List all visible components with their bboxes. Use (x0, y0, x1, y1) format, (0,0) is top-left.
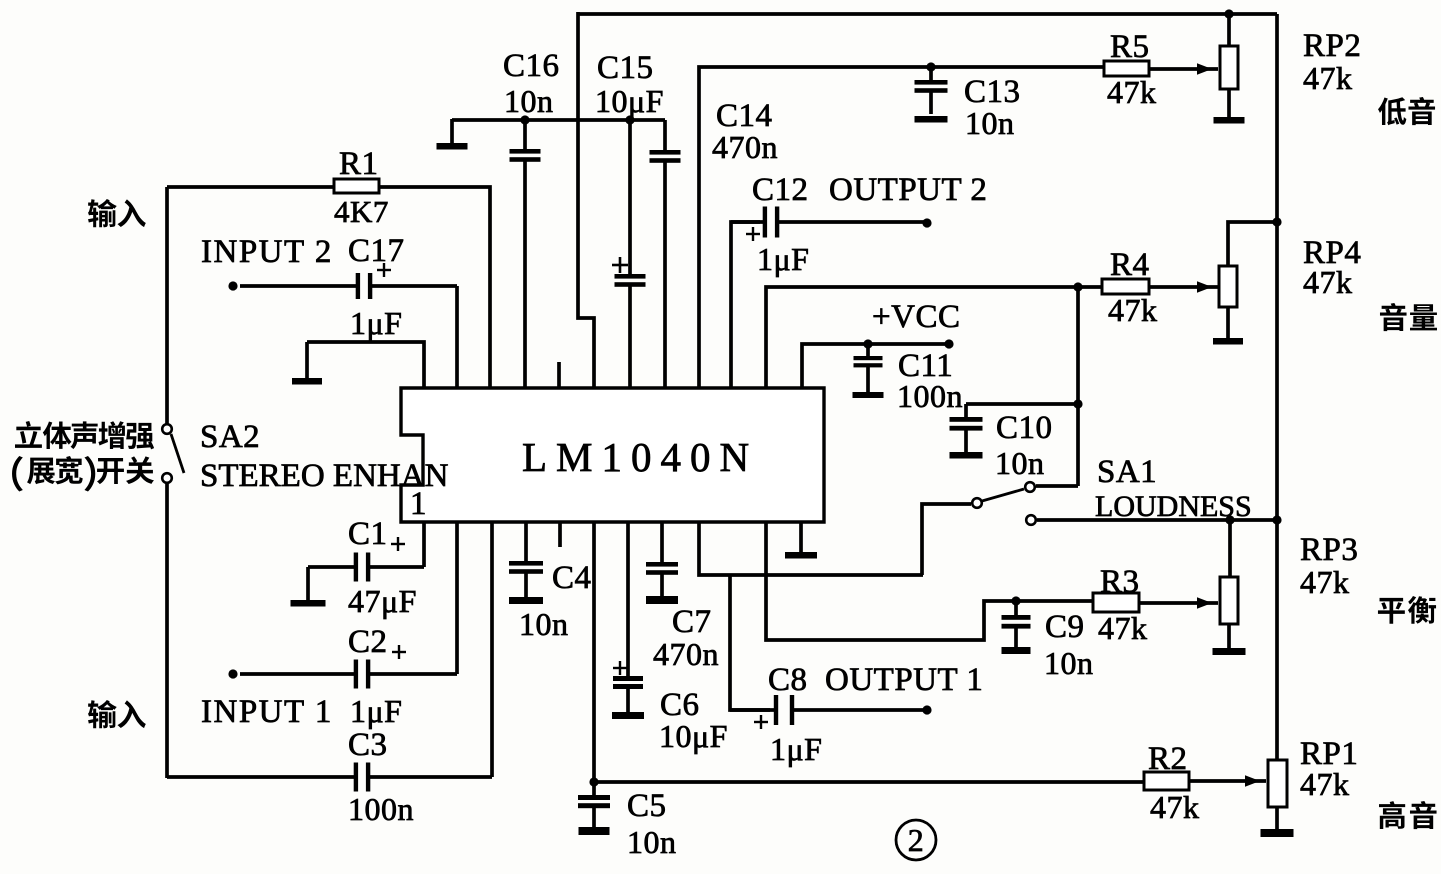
capacitor C7 (646, 522, 678, 596)
svg-text:1μF: 1μF (350, 693, 402, 729)
wire input2 to R1 (167, 185, 334, 189)
svg-text:SA1: SA1 (1097, 454, 1157, 490)
value 10n C4 (519, 606, 569, 642)
capacitor C10 (950, 404, 983, 452)
wire SA1 upper (1036, 484, 1078, 488)
svg-text:C15: C15 (597, 50, 654, 86)
svg-text:1μF: 1μF (350, 305, 402, 341)
label C13 (964, 74, 1021, 110)
resistor R3 (1093, 593, 1139, 612)
ground (437, 119, 468, 150)
wire C3 up to IC (490, 522, 494, 777)
label RP3 (1300, 532, 1358, 568)
svg-text:C12: C12 (752, 172, 809, 208)
value 47k R4 (1108, 292, 1158, 328)
label C2 (348, 624, 388, 660)
node 音量 volume (1380, 303, 1437, 331)
wire junction drop (1076, 287, 1080, 486)
pin stub top (557, 362, 561, 388)
ground (950, 452, 983, 459)
switch SA2 contact top (162, 424, 172, 434)
junction right border loudness (1272, 515, 1281, 524)
capacitor C1 (308, 553, 424, 582)
label STEREO ENHAN (200, 458, 449, 494)
resistor R1 (334, 179, 379, 193)
label C9 (1045, 609, 1085, 645)
svg-text:10μF: 10μF (659, 718, 728, 754)
capacitor C12 (731, 207, 927, 238)
svg-text:C9: C9 (1045, 609, 1085, 645)
wire R4 arrow to RP4 (1149, 281, 1218, 293)
junction top border to RP2 (1224, 9, 1233, 18)
label SA2 (200, 419, 260, 455)
label C15 (597, 50, 654, 86)
label R5 (1110, 29, 1150, 65)
junction RP3 tap (1225, 515, 1234, 524)
value 1uF C12 (757, 241, 809, 277)
svg-text:R2: R2 (1148, 741, 1188, 777)
node input 2 label 输入 (88, 199, 146, 227)
wire bottom bus (594, 780, 1144, 784)
wire C17 down to IC (455, 286, 459, 388)
label SA2 switch 开关 (12, 456, 154, 492)
value 1uF C17 (350, 305, 402, 341)
label LM1040N (522, 434, 758, 480)
capacitor C11 (854, 346, 883, 392)
ground (612, 712, 644, 719)
capacitor C17 (240, 273, 457, 299)
label SA1 (1097, 454, 1157, 490)
svg-text:4K7: 4K7 (334, 194, 389, 229)
label C8 (768, 662, 808, 698)
value 10n C16 (504, 83, 554, 119)
label C10 (996, 410, 1053, 446)
svg-text:R1: R1 (339, 146, 379, 182)
capacitor C15 (615, 122, 646, 388)
wire ground bus top (452, 118, 665, 122)
wire R2 arrow to RP1 (1189, 775, 1266, 787)
label INPUT 1 (201, 694, 333, 730)
svg-text:47k: 47k (1303, 60, 1353, 96)
ground (292, 342, 322, 385)
label C11 (898, 348, 953, 384)
switch SA2 contact bottom (162, 473, 172, 483)
value 10n C10 (995, 445, 1045, 481)
wire left rail lower (165, 483, 169, 778)
svg-text:OUTPUT 2: OUTPUT 2 (829, 172, 987, 208)
label RP2 (1303, 28, 1361, 64)
capacitor C13 (915, 69, 948, 114)
capacitor C2 (240, 660, 457, 689)
svg-text:1μF: 1μF (770, 731, 822, 767)
value 100n C3 (348, 791, 414, 827)
wire R4 feed (766, 287, 1102, 388)
svg-text:47k: 47k (1108, 292, 1158, 328)
pin 1 label (410, 486, 427, 522)
value 10uF C15 (595, 83, 664, 119)
node input 1 label 输入 (88, 700, 146, 728)
junction C10 (1073, 399, 1082, 408)
svg-text:R3: R3 (1100, 564, 1140, 600)
wire VCC (802, 344, 949, 388)
capacitor C3 (167, 763, 492, 792)
node 低音 bass (1378, 97, 1435, 125)
svg-text:10n: 10n (504, 83, 554, 119)
label OUTPUT 2 (829, 172, 987, 208)
value 10n C13 (965, 105, 1015, 141)
junction right border RP4 tap (1272, 217, 1281, 226)
label R2 (1148, 741, 1188, 777)
polarity + C2 (392, 645, 406, 659)
value 47k RP3 (1300, 564, 1350, 600)
svg-text:+VCC: +VCC (872, 299, 960, 335)
switch SA1 lever (982, 489, 1024, 501)
label LOUDNESS (1095, 490, 1252, 523)
label RP1 (1300, 736, 1358, 772)
svg-text:RP3: RP3 (1300, 532, 1358, 568)
svg-text:C7: C7 (672, 604, 712, 640)
terminal output 2 (922, 218, 931, 227)
value 1uF C2 (350, 693, 402, 729)
wire R3 arrow to RP3 (1139, 597, 1218, 609)
potentiometer RP3 (1220, 520, 1238, 648)
label C4 (552, 560, 592, 596)
label C12 (752, 172, 809, 208)
svg-text:C16: C16 (503, 48, 560, 84)
label OUTPUT 1 (825, 662, 983, 698)
pin stub bottom (558, 522, 562, 547)
ground (509, 597, 543, 604)
svg-text:47k: 47k (1098, 610, 1148, 646)
svg-text:10μF: 10μF (595, 83, 664, 119)
terminal +VCC (944, 339, 953, 348)
svg-text:STEREO ENHAN: STEREO ENHAN (200, 458, 449, 494)
svg-text:C3: C3 (348, 727, 388, 763)
wire gnd stub to IC pin (307, 342, 424, 388)
svg-text:47k: 47k (1300, 564, 1350, 600)
switch SA1 contact pole (972, 498, 982, 508)
polarity + C1 (391, 537, 405, 551)
svg-text:C2: C2 (348, 624, 388, 660)
ground (646, 596, 678, 604)
terminal input 2 (228, 281, 237, 290)
ground (1261, 829, 1294, 837)
svg-text:INPUT 2: INPUT 2 (201, 234, 333, 270)
svg-text:1μF: 1μF (757, 241, 809, 277)
svg-text:LM1040N: LM1040N (522, 434, 758, 480)
value 47k RP1 (1300, 766, 1350, 802)
wire left drop from top border (578, 12, 594, 388)
svg-text:10n: 10n (995, 445, 1045, 481)
svg-text:470n: 470n (653, 636, 719, 672)
capacitor C14 (650, 120, 681, 388)
label +VCC (872, 299, 960, 335)
ground (1214, 117, 1245, 124)
switch SA1 contact right (1025, 482, 1035, 492)
label R4 (1110, 247, 1150, 283)
value 47k R5 (1107, 74, 1157, 110)
wire IC pin to SA1 (699, 522, 923, 575)
label INPUT 2 (201, 234, 333, 270)
polarity + C17 (377, 263, 391, 277)
label C3 (348, 727, 388, 763)
potentiometer RP1 (1268, 760, 1287, 829)
wire R5 arrow to RP2 (1149, 63, 1218, 75)
junction C11 (863, 339, 872, 348)
label R1 (339, 146, 379, 182)
capacitor C9 (1002, 603, 1031, 647)
junction C13 (926, 62, 935, 71)
svg-text:10n: 10n (627, 824, 677, 860)
capacitor C8 (730, 695, 927, 725)
svg-text:10n: 10n (965, 105, 1015, 141)
svg-text:C8: C8 (768, 662, 808, 698)
svg-text:47k: 47k (1107, 74, 1157, 110)
label C5 (627, 788, 667, 824)
svg-text:OUTPUT 1: OUTPUT 1 (825, 662, 983, 698)
resistor R5 (1104, 61, 1149, 76)
resistor R2 (1144, 772, 1189, 790)
label C17 (348, 233, 405, 269)
switch SA2 lever (171, 434, 184, 473)
value 10n C9 (1044, 645, 1094, 681)
wire top border (578, 12, 1277, 16)
label C16 (503, 48, 560, 84)
ground (1213, 648, 1246, 655)
ground (915, 116, 948, 123)
svg-text:10n: 10n (519, 606, 569, 642)
wire SA1 pole (922, 504, 971, 575)
value 470n C14 (712, 129, 778, 165)
node 高音 treble (1379, 801, 1437, 829)
value 47k R2 (1150, 789, 1200, 825)
value 47k RP2 (1303, 60, 1353, 96)
ground (853, 392, 884, 398)
capacitor C6 (613, 522, 643, 712)
terminal input 1 (228, 669, 237, 678)
value 47k R3 (1098, 610, 1148, 646)
potentiometer RP2 (1220, 14, 1238, 117)
value 1uF C8 (770, 731, 822, 767)
svg-text:INPUT 1: INPUT 1 (201, 694, 333, 730)
resistor R4 (1102, 279, 1149, 294)
wire IC to bottom bus (592, 522, 596, 782)
polarity + C15 (612, 257, 628, 273)
ground (1002, 647, 1031, 654)
wire C10 node (966, 402, 1078, 406)
svg-text:C10: C10 (996, 410, 1053, 446)
ground (1213, 338, 1243, 345)
value 47k RP4 (1303, 264, 1353, 300)
wire C1 up to IC (422, 522, 426, 567)
label R3 (1100, 564, 1140, 600)
wire left rail upper (165, 187, 169, 424)
junction C5 (589, 777, 598, 786)
label C1 (348, 516, 388, 552)
potentiometer RP4 (1219, 266, 1237, 338)
label RP4 (1303, 235, 1361, 271)
svg-text:C5: C5 (627, 788, 667, 824)
capacitor C5 (578, 784, 610, 827)
svg-text:RP2: RP2 (1303, 28, 1361, 64)
junction C16 (520, 115, 529, 124)
ground (579, 827, 610, 835)
wire IC to C12 (731, 222, 760, 388)
wire IC to R3 (766, 522, 1093, 640)
svg-text:2: 2 (908, 822, 925, 858)
value 10uF C6 (659, 718, 728, 754)
svg-text:100n: 100n (897, 378, 963, 414)
wire C8 branch (730, 575, 770, 710)
label SA2 切换 text (15, 421, 154, 449)
node 平衡 balance (1378, 596, 1436, 624)
junction R4 C10 (1073, 282, 1082, 291)
wire right border (1275, 14, 1279, 762)
junction C9 (1011, 596, 1020, 605)
svg-text:C17: C17 (348, 233, 405, 269)
value 470n C7 (653, 636, 719, 672)
label C6 (660, 687, 700, 723)
junction C15 (625, 115, 634, 124)
svg-text:R5: R5 (1110, 29, 1150, 65)
label C14 (716, 98, 773, 134)
polarity + C12 (746, 227, 760, 241)
wire C2 up to IC (455, 522, 459, 674)
ground (291, 567, 326, 607)
switch SA1 contact lower (1026, 515, 1036, 525)
wire R5 feed (699, 67, 1104, 388)
op-amp U1 LM1040N IC body (401, 388, 824, 522)
svg-text:C4: C4 (552, 560, 592, 596)
value 4K7 (334, 194, 389, 229)
value 47uF C1 (348, 583, 417, 619)
polarity + C6 (613, 661, 627, 675)
ground (785, 522, 817, 559)
wire R1 to IC pin (379, 187, 490, 388)
svg-text:R4: R4 (1110, 247, 1150, 283)
wire loudness line (1037, 518, 1277, 522)
svg-text:47k: 47k (1300, 766, 1350, 802)
svg-text:10n: 10n (1044, 645, 1094, 681)
svg-text:C1: C1 (348, 516, 388, 552)
svg-text:47k: 47k (1150, 789, 1200, 825)
svg-text:47μF: 47μF (348, 583, 417, 619)
svg-text:SA2: SA2 (200, 419, 260, 455)
capacitor C16 (510, 122, 541, 388)
svg-text:470n: 470n (712, 129, 778, 165)
polarity + C8 (754, 715, 768, 729)
value 10n C5 (627, 824, 677, 860)
wire RP4 top tap (1228, 222, 1277, 266)
terminal output 1 (922, 705, 931, 714)
svg-text:100n: 100n (348, 791, 414, 827)
label C7 (672, 604, 712, 640)
figure number 2 (896, 820, 936, 860)
capacitor C4 (509, 522, 543, 597)
svg-text:47k: 47k (1303, 264, 1353, 300)
value 100n C11 (897, 378, 963, 414)
